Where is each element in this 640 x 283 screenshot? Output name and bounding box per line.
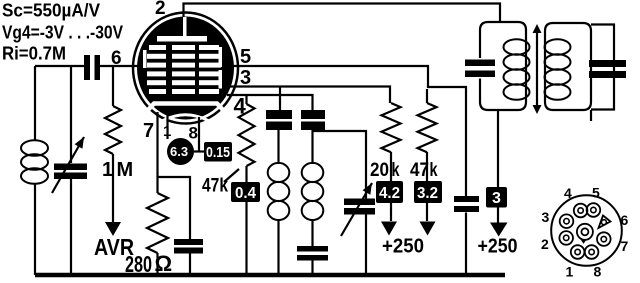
svg-text:1: 1 <box>163 123 171 140</box>
svg-text:k: k <box>392 160 400 181</box>
svg-text:4: 4 <box>564 185 572 201</box>
svg-text:2: 2 <box>155 0 166 19</box>
svg-text:4.2: 4.2 <box>379 185 400 202</box>
svg-text:k: k <box>430 160 438 181</box>
svg-text:Ω: Ω <box>155 251 173 276</box>
svg-text:20: 20 <box>370 160 389 181</box>
svg-text:7: 7 <box>143 120 154 142</box>
svg-text:6: 6 <box>111 48 122 69</box>
svg-text:3: 3 <box>542 209 550 225</box>
svg-text:6: 6 <box>621 212 629 228</box>
svg-text:Sc=550µA/V: Sc=550µA/V <box>2 1 100 21</box>
svg-text:Vg4=-3V . . .-30V: Vg4=-3V . . .-30V <box>2 23 123 43</box>
svg-text:5: 5 <box>592 185 600 201</box>
svg-text:47: 47 <box>410 160 429 181</box>
svg-text:1: 1 <box>566 264 574 280</box>
svg-text:3.2: 3.2 <box>417 185 438 202</box>
svg-text:0.15: 0.15 <box>206 144 230 161</box>
svg-text:2: 2 <box>541 236 549 252</box>
svg-text:7: 7 <box>621 238 629 254</box>
svg-text:6.3: 6.3 <box>170 144 188 159</box>
svg-text:8: 8 <box>189 124 198 143</box>
svg-text:8: 8 <box>594 264 602 280</box>
svg-text:4: 4 <box>234 94 247 119</box>
svg-text:+250: +250 <box>382 235 424 258</box>
svg-text:5: 5 <box>240 46 251 68</box>
svg-text:47k: 47k <box>202 176 228 197</box>
svg-text:+250: +250 <box>478 235 518 258</box>
svg-text:0.4: 0.4 <box>235 185 256 202</box>
svg-text:3: 3 <box>240 67 251 89</box>
svg-text:3: 3 <box>492 190 501 207</box>
svg-text:280: 280 <box>125 251 152 277</box>
svg-text:M: M <box>117 159 134 181</box>
svg-text:1: 1 <box>102 159 113 181</box>
svg-text:Ri=0.7M: Ri=0.7M <box>2 44 66 64</box>
